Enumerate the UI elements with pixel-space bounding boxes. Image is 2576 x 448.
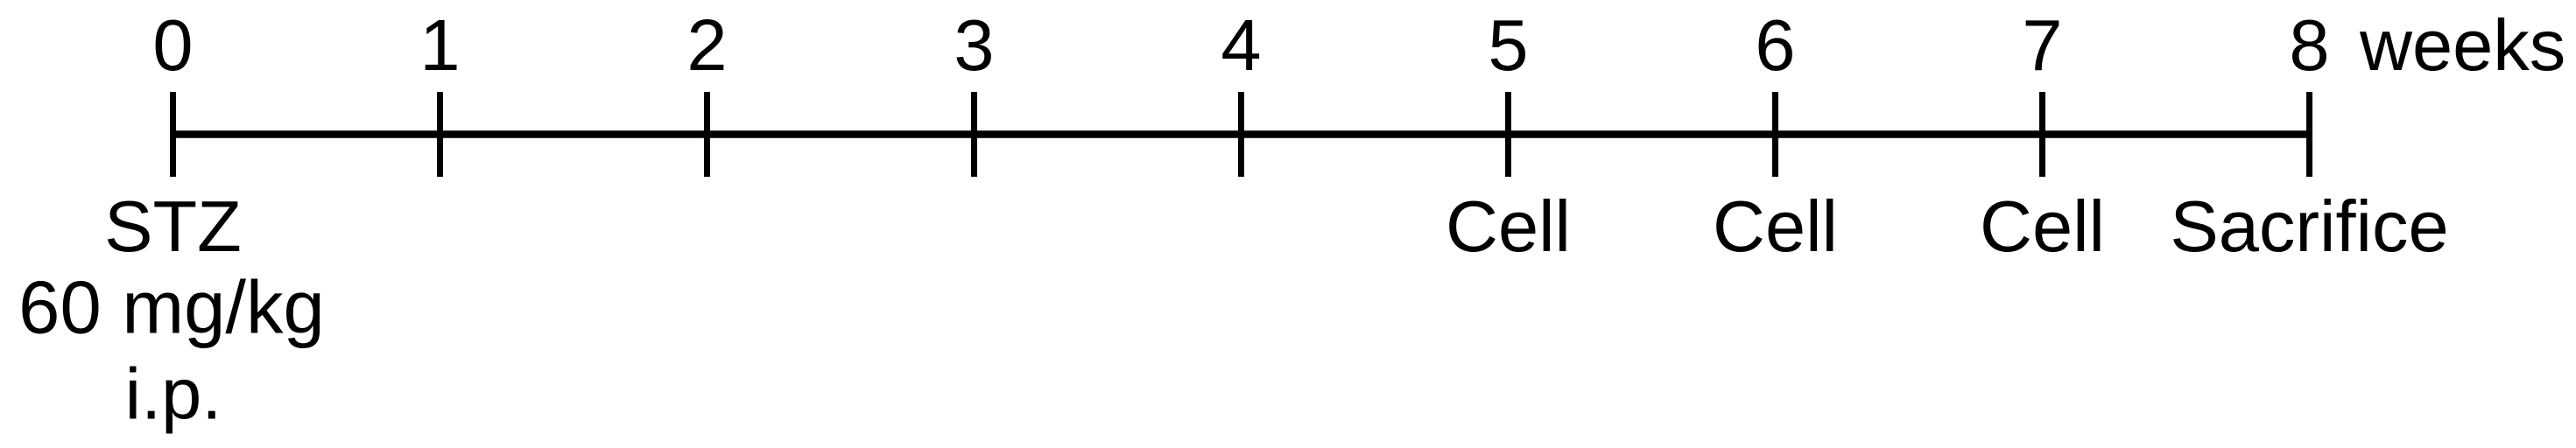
svg-text:Cell: Cell	[1446, 185, 1571, 267]
svg-text:0: 0	[152, 4, 193, 86]
svg-text:Cell: Cell	[1980, 185, 2105, 267]
svg-text:Sacrifice: Sacrifice	[2170, 185, 2448, 267]
svg-text:3: 3	[954, 4, 994, 86]
svg-text:Cell: Cell	[1713, 185, 1838, 267]
svg-text:i.p.: i.p.	[125, 353, 222, 435]
svg-text:2: 2	[686, 4, 727, 86]
tick week 1	[437, 92, 443, 177]
tick week 4	[1238, 92, 1244, 177]
tick week 0	[170, 92, 176, 177]
tick week 5	[1505, 92, 1511, 177]
svg-text:STZ: STZ	[104, 185, 242, 267]
timeline axis line	[170, 130, 2312, 138]
svg-text:60 mg/kg: 60 mg/kg	[18, 267, 325, 350]
svg-text:6: 6	[1755, 4, 1795, 86]
tick week 8	[2306, 92, 2312, 177]
svg-text:7: 7	[2022, 4, 2062, 86]
tick week 7	[2039, 92, 2045, 177]
tick week 3	[971, 92, 977, 177]
svg-text:8: 8	[2289, 4, 2329, 86]
tick week 6	[1772, 92, 1778, 177]
tick week 2	[704, 92, 710, 177]
svg-text:4: 4	[1221, 4, 1261, 86]
svg-text:5: 5	[1488, 4, 1528, 86]
svg-text:weeks: weeks	[2359, 4, 2565, 86]
svg-text:1: 1	[419, 4, 460, 86]
